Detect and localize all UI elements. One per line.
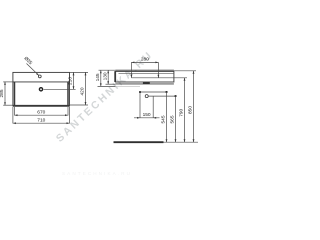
drain wall dot [139, 91, 141, 93]
overflow hole [38, 75, 41, 78]
dimension 545 [166, 91, 168, 93]
side view inner top line [119, 72, 174, 74]
svg-text:670: 670 [37, 109, 45, 115]
extension bottom right [70, 104, 89, 106]
svg-text:565: 565 [169, 115, 175, 123]
dimension 285 [4, 82, 6, 105]
extension top left of side view [99, 69, 116, 71]
extension left top [3, 81, 13, 83]
extension 130 bottom [106, 83, 116, 85]
side inner line [131, 77, 187, 79]
floor line [114, 141, 164, 143]
leader arrow [36, 73, 39, 75]
svg-text:710: 710 [37, 117, 45, 123]
leader line O35 [27, 64, 39, 76]
svg-text:150: 150 [143, 112, 151, 118]
svg-text:280: 280 [141, 57, 149, 63]
280 extension right [157, 62, 159, 77]
svg-text:285: 285 [0, 89, 5, 97]
trap circle [145, 95, 148, 98]
svg-text:850: 850 [187, 106, 193, 114]
150 extension right [152, 96, 154, 118]
floor line thin [164, 141, 199, 143]
extension left bottom [3, 104, 13, 106]
faucet hole [39, 88, 42, 91]
dimension 145 [100, 70, 102, 86]
svg-text:545: 545 [160, 115, 166, 123]
dimension 790 [184, 78, 186, 142]
extension from rect top right [174, 70, 196, 72]
extension top right [70, 71, 89, 73]
plan view rim line [13, 81, 70, 83]
dimension 670 [15, 114, 69, 116]
dimension 850 [193, 71, 195, 142]
drain boss [143, 82, 150, 84]
faint under-rect line [115, 85, 140, 87]
plan view inner wall right [67, 82, 69, 105]
drain line upper [140, 91, 167, 93]
watermark bottom [62, 171, 132, 176]
plan view front edge thick [13, 105, 70, 107]
extension bottom left 710 [12, 107, 14, 124]
dimension 420 [85, 72, 87, 105]
svg-text:130: 130 [102, 72, 108, 80]
side view rim top [115, 69, 173, 71]
svg-text:Ø35: Ø35 [23, 56, 34, 67]
extension bottom left 670 [14, 107, 16, 116]
280 extension left [130, 62, 132, 77]
dimension 710 [13, 122, 70, 124]
dimension 565 [175, 95, 177, 97]
watermark diagonal [54, 48, 156, 144]
plan view outer rect [13, 72, 70, 106]
extension bottom right 670 [67, 107, 69, 116]
dimension 210 [73, 72, 75, 89]
plan view inner wall left [14, 82, 16, 105]
extension 145 bottom [98, 85, 116, 87]
svg-text:790: 790 [178, 108, 184, 116]
drain line lower [148, 95, 175, 97]
faucet leader line [44, 88, 76, 90]
side view rect [115, 71, 173, 82]
dimension 150 [134, 117, 160, 119]
extension bottom right 710 [69, 107, 71, 124]
svg-text:420: 420 [80, 87, 86, 95]
150 extension left [139, 92, 141, 118]
svg-text:210: 210 [68, 77, 74, 85]
side view bottom double [115, 83, 173, 85]
side rect thick left edge [114, 71, 116, 82]
dimension 130 [107, 70, 109, 84]
dimension 280 [131, 61, 158, 63]
svg-text:145: 145 [95, 73, 101, 81]
